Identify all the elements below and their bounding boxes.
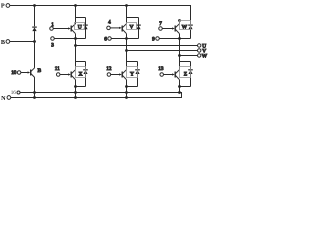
pin 7 gate of W [159,21,173,30]
node V emitter junction [125,37,128,40]
svg-text:16: 16 [11,90,17,96]
terminal P [6,4,10,8]
label box X [76,67,86,78]
wire U collector [75,6,77,24]
svg-text:9: 9 [152,37,155,43]
svg-text:4: 4 [108,20,111,26]
wire phase V vertical [126,39,128,62]
wire brake collector [34,42,36,68]
diode DX antiparallel of X [83,62,88,87]
svg-text:B: B [38,68,42,74]
pin 3 emitter sense of U [51,37,86,49]
wire Y emitter [126,80,128,98]
node N-X junction [74,96,77,99]
wire brake emitter [34,78,36,98]
wire W emitter [179,34,181,39]
pin 6 emitter sense of V [104,37,138,43]
transistor V upper IGBT [119,24,126,34]
svg-text:12: 12 [106,66,112,72]
svg-text:Y: Y [130,71,134,77]
node Z emitter bracket junction [178,85,181,88]
wire Z collector [179,62,181,70]
node U output junction [74,44,77,47]
wire N rail [11,93,182,98]
node X emitter bracket junction [74,85,77,88]
svg-text:3: 3 [51,43,54,49]
label box V [127,23,137,31]
svg-text:W: W [202,53,208,59]
label box Z [180,67,191,78]
svg-text:7: 7 [159,21,162,27]
label box Y [127,67,138,78]
node P-U collector junction [74,4,77,7]
svg-text:X: X [79,71,83,77]
wire Y collector [126,62,128,70]
node W emitter junction [178,37,181,40]
pin 11 gate of X [55,66,69,76]
wire output line V [127,50,198,52]
svg-text:V: V [130,25,134,31]
wire Y emitter-diode bracket [127,86,138,88]
pin 9 emitter sense of W [152,37,190,43]
node W collector junction [178,19,181,22]
wire output line U [76,45,198,47]
wire emitter sense rail [20,92,180,94]
terminal B [6,40,10,44]
pin 13 gate of Z [158,66,172,76]
node Y emitter bracket junction [125,85,128,88]
svg-text:13: 13 [158,66,164,72]
svg-text:B: B [1,39,5,46]
node N-brake junction [33,96,36,99]
wire Z emitter [179,80,181,93]
pin 12 gate of Y [106,66,119,76]
pin 10 [11,70,28,76]
diode DY antiparallel of Y [135,62,140,87]
svg-text:U: U [78,25,82,31]
pin 4 gate of V [107,20,120,30]
transistor B brake IGBT [28,68,35,78]
pin 1 gate of U [50,22,69,30]
diode DZ antiparallel of Z [188,62,193,87]
terminal output V [198,48,207,54]
node P-V collector junction [125,4,128,7]
wire output line W [180,55,198,57]
node N-Y junction [125,96,128,99]
wire phase U vertical [75,39,77,62]
pin 16 [17,91,20,94]
wire Z emitter-diode bracket [180,86,191,88]
node P-brake-diode junction [33,4,36,7]
diode DV antiparallel of V [136,18,141,39]
svg-text:Z: Z [184,71,188,77]
transistor X lower IGBT [68,70,75,80]
transistor Z lower IGBT [172,70,179,80]
transistor W upper IGBT [172,24,179,34]
wire V collector [126,6,128,24]
svg-text:6: 6 [104,37,107,43]
node W output junction [178,54,181,57]
wire X collector [75,62,77,70]
wire X emitter-diode bracket [76,86,86,88]
node B junction [33,40,36,43]
wire phase W vertical [179,39,181,62]
svg-text:N: N [1,95,6,102]
wire B terminal lead [10,41,35,43]
terminal N [7,96,11,100]
node sense-Y junction [125,91,128,94]
wire P rail [10,6,191,21]
node V output junction [125,49,128,52]
wire Z collector-diode bracket [180,61,191,63]
diode DW antiparallel of W [188,21,193,39]
svg-text:11: 11 [55,66,60,72]
wire Y collector-diode bracket [127,61,138,63]
transistor Y lower IGBT [119,70,126,80]
svg-text:10: 10 [11,70,17,76]
wire W collector [179,21,181,24]
wire X collector-diode bracket [76,61,86,63]
transistor U upper IGBT [68,24,75,34]
svg-text:1: 1 [51,22,54,28]
terminal output W [198,53,208,59]
node U emitter junction [74,37,77,40]
node sense-X junction [74,91,77,94]
svg-text:W: W [182,25,188,31]
node sense-brake junction [33,91,36,94]
terminal output U [198,43,207,49]
diode DU antiparallel of U [83,18,88,39]
wire V collector-diode bracket [127,17,139,19]
wire V emitter [126,34,128,39]
diode D7 brake freewheel [32,6,37,42]
svg-text:P: P [1,3,5,10]
node sense-Z junction [178,91,181,94]
wire U emitter [75,34,77,39]
wire U collector-diode bracket [76,17,86,19]
label box W [180,21,191,31]
wire X emitter [75,80,77,98]
label box U [75,23,85,31]
